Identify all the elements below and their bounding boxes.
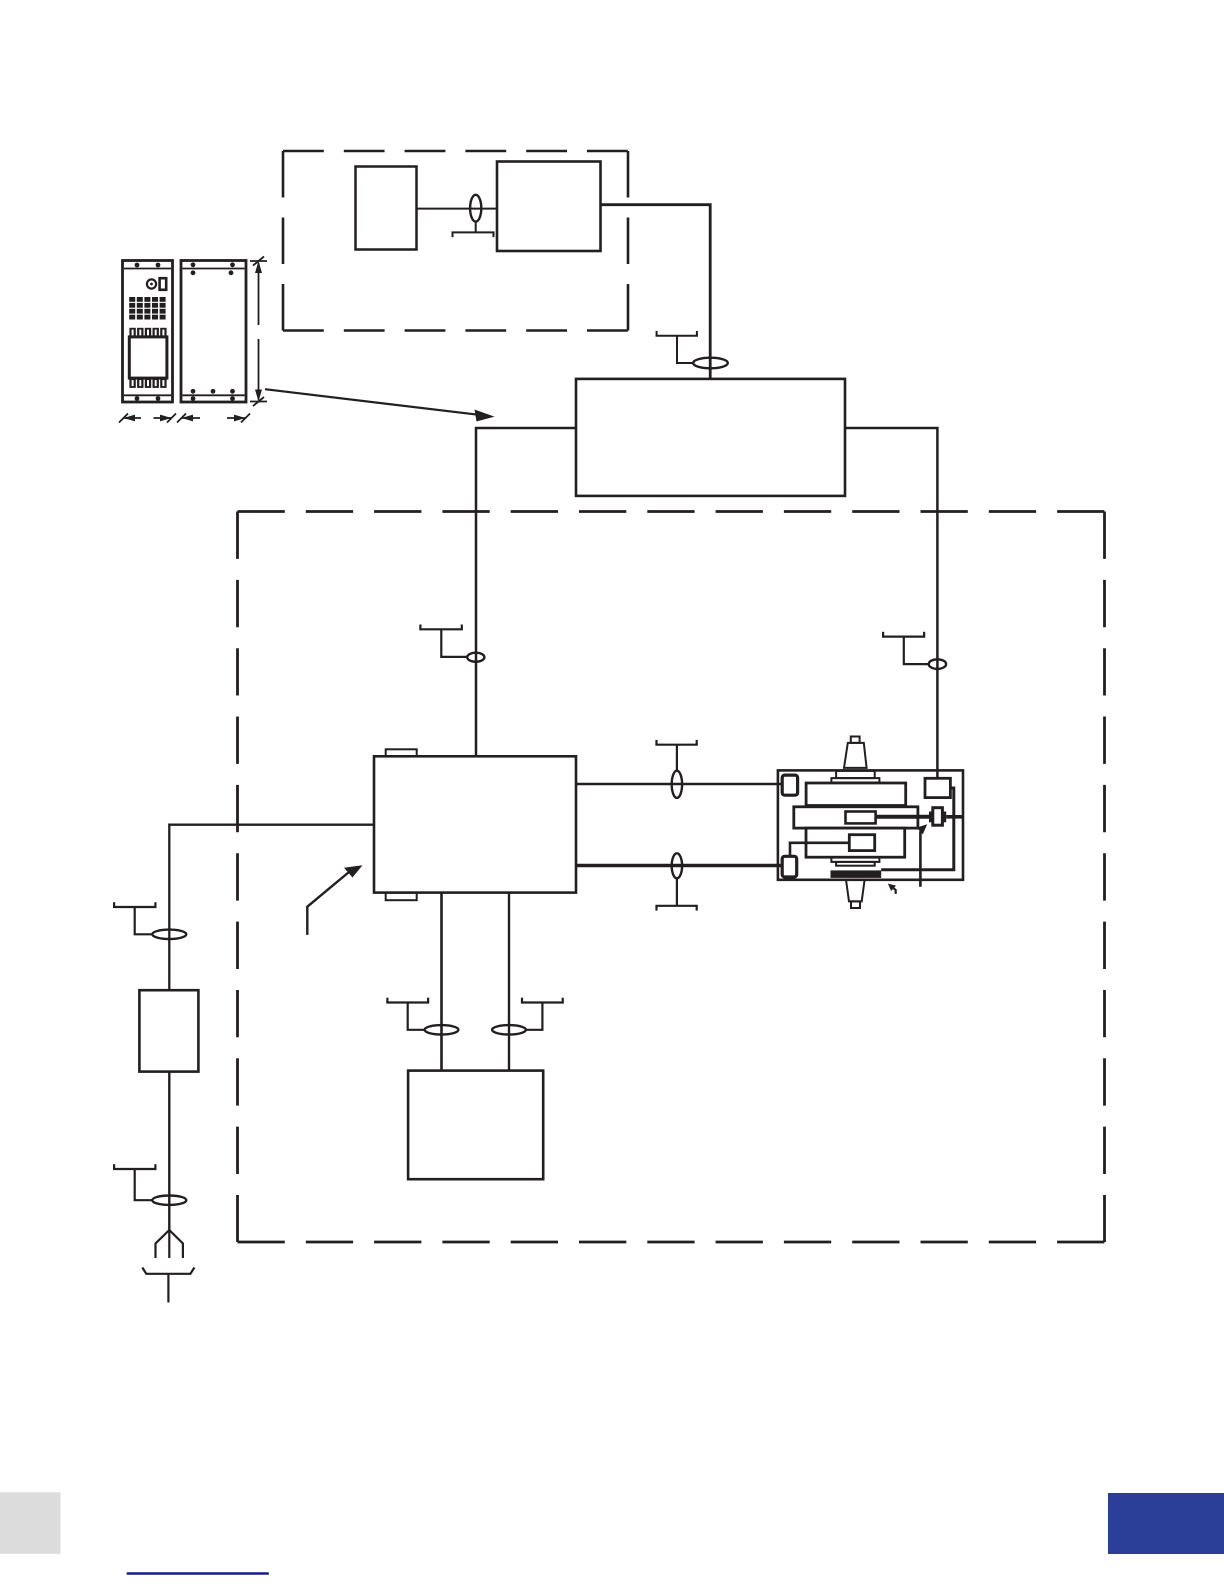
leader arrow to shaft coupler xyxy=(917,824,928,887)
pump rotor window xyxy=(846,812,876,824)
footer page-number gray block xyxy=(0,1492,61,1554)
clamp bracket for F7 xyxy=(386,998,429,1030)
front panel upper terminal row xyxy=(129,328,166,337)
clamp bracket for F1 xyxy=(452,222,495,238)
mains plug symbol xyxy=(142,1230,194,1303)
control box xyxy=(374,756,576,892)
power supply box xyxy=(356,167,417,250)
pump middle bar xyxy=(794,807,918,828)
pump terminal box top right xyxy=(925,778,950,797)
footer brand blue block xyxy=(1108,1493,1224,1554)
ferrite core F1 xyxy=(470,195,481,222)
front panel connector socket xyxy=(147,278,166,290)
power wire controller to pump connector xyxy=(845,428,937,778)
ferrite core F4 xyxy=(929,659,946,669)
vertical dimension line xyxy=(250,257,267,407)
small leader arrow to heater band xyxy=(888,884,896,894)
leader arrow from panel drawing to bus cable xyxy=(265,389,495,421)
power wire control box to pump xyxy=(576,864,782,867)
signal wire control box to pump xyxy=(576,783,782,785)
pump top shaft cap xyxy=(851,737,860,743)
wire filter to mains plug xyxy=(168,1072,170,1230)
wire control box to mains filter xyxy=(169,825,374,991)
control unit front panel (front view) xyxy=(123,261,173,403)
wire gateway to main controller xyxy=(601,205,711,379)
heater unit dashed enclosure xyxy=(238,512,1105,1243)
pump upper body xyxy=(806,783,906,806)
pump lower-left connector xyxy=(782,856,797,877)
clamp bracket for F10 xyxy=(655,878,697,910)
clamp bracket for F2 xyxy=(656,331,699,363)
clamp bracket for F5 xyxy=(113,902,157,934)
clamp bracket for F8 xyxy=(521,998,564,1030)
pump bottom shaft cap xyxy=(851,901,860,908)
main controller box xyxy=(576,379,845,496)
width dimension of front panel xyxy=(119,414,176,423)
pump assembly enclosure xyxy=(778,770,963,879)
clamp bracket for F3 xyxy=(419,625,467,657)
ferrite core F3 xyxy=(467,653,484,662)
leader arrow to control box xyxy=(307,865,362,935)
control box top mounting tab xyxy=(386,749,417,756)
ferrite core F7 xyxy=(425,1025,459,1034)
pump bottom shaft xyxy=(846,880,865,902)
wire power supply to gateway xyxy=(417,208,498,210)
pump internal wire lower left xyxy=(790,843,849,857)
gateway box xyxy=(497,162,601,252)
front panel keypad block xyxy=(129,297,165,320)
clamp bracket for F4 xyxy=(882,632,929,664)
pump upper-left connector xyxy=(782,775,797,795)
control box bottom mounting tab xyxy=(386,893,417,901)
footer blue rule xyxy=(127,1572,269,1574)
front panel display window xyxy=(129,337,167,378)
front panel lower terminal row xyxy=(129,378,166,388)
width dimension of side housing xyxy=(177,414,250,423)
pump shaft line xyxy=(876,815,930,819)
wire control box to terminal block left xyxy=(440,893,443,1071)
wire control box to terminal block right xyxy=(508,893,510,1071)
ferrite core F8 xyxy=(492,1025,526,1034)
indoor unit dashed enclosure xyxy=(283,151,628,331)
mains filter box xyxy=(139,990,198,1071)
ferrite core F9 xyxy=(672,771,682,798)
ferrite core F2 xyxy=(693,358,728,369)
pump stator window xyxy=(849,835,874,851)
pump top flange xyxy=(836,771,875,778)
shaft coupler xyxy=(930,808,963,826)
pump bottom flange xyxy=(831,857,879,862)
pump heater band xyxy=(831,870,882,878)
pump internal wire from connector box xyxy=(881,788,954,870)
clamp bracket for F9 xyxy=(655,740,697,771)
terminal block box xyxy=(408,1071,543,1180)
pump top shaft xyxy=(844,743,867,768)
ferrite core F10 xyxy=(672,853,682,878)
ferrite core F5 xyxy=(152,930,186,939)
clamp bracket for F6 xyxy=(113,1164,157,1200)
control unit housing (side view) xyxy=(181,261,246,403)
ferrite core F6 xyxy=(152,1196,186,1205)
bus wire controller to control box xyxy=(476,428,576,756)
pump lower body xyxy=(806,828,905,857)
